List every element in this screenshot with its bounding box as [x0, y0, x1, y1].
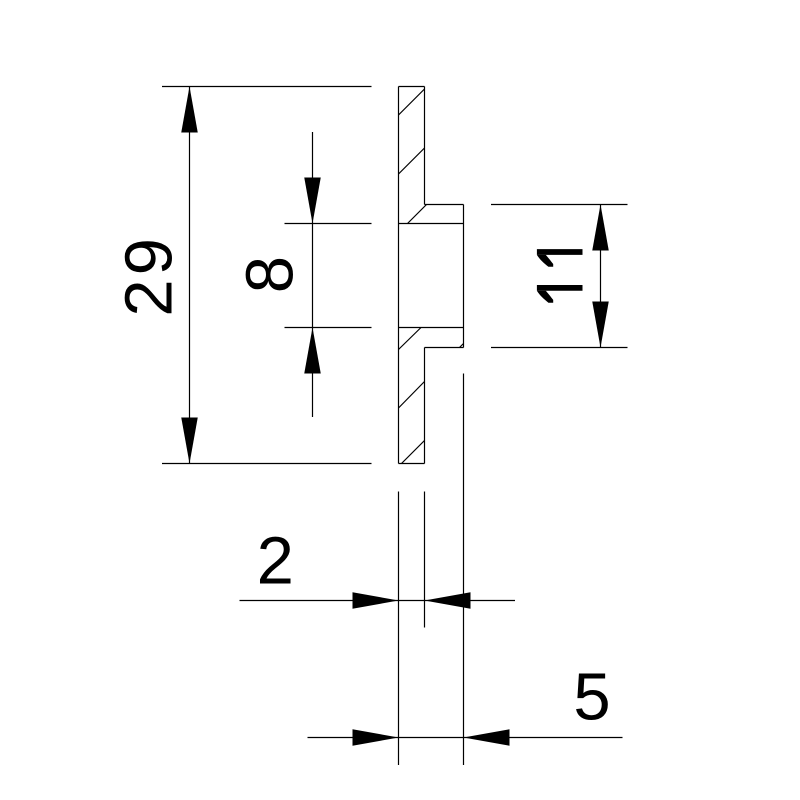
svg-text:2: 2 — [257, 524, 294, 599]
svg-text:29: 29 — [112, 234, 187, 317]
svg-text:8: 8 — [233, 256, 308, 293]
svg-text:5: 5 — [573, 660, 610, 735]
